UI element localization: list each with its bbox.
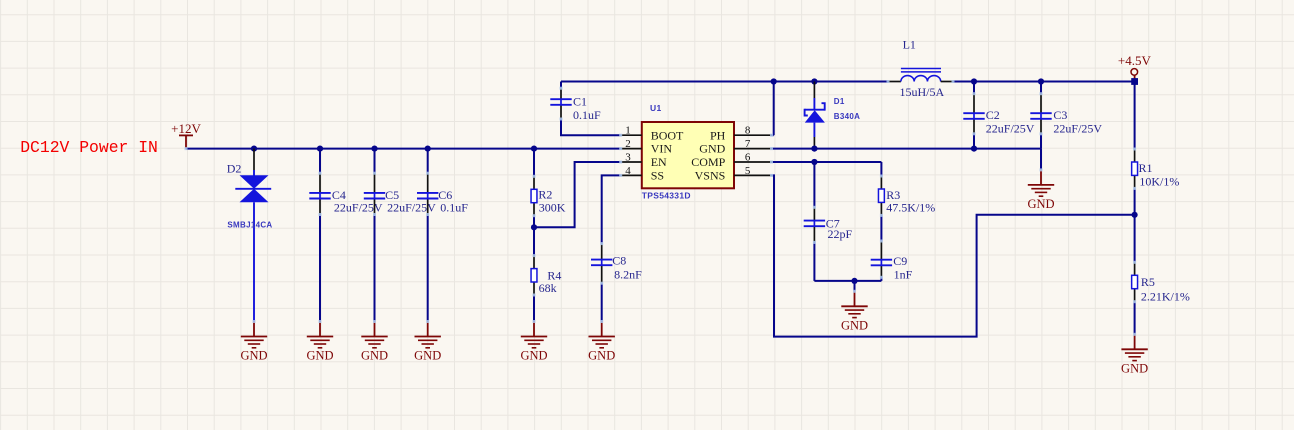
svg-text:GND: GND (841, 319, 868, 333)
svg-text:VIN: VIN (651, 142, 673, 156)
svg-text:TPS54331D: TPS54331D (642, 190, 691, 200)
svg-text:+12V: +12V (171, 121, 201, 136)
svg-text:22uF/25V: 22uF/25V (986, 122, 1035, 136)
svg-text:D2: D2 (227, 161, 242, 175)
svg-text:R5: R5 (1141, 275, 1155, 289)
svg-text:10K/1%: 10K/1% (1139, 175, 1179, 189)
svg-text:7: 7 (745, 138, 751, 150)
svg-text:C8: C8 (612, 254, 626, 268)
svg-text:5: 5 (745, 165, 751, 177)
svg-text:0.1uF: 0.1uF (573, 108, 601, 122)
svg-text:47.5K/1%: 47.5K/1% (886, 201, 935, 215)
svg-text:22uF/25V: 22uF/25V (1053, 122, 1102, 136)
svg-text:GND: GND (699, 142, 725, 156)
svg-text:EN: EN (651, 155, 667, 169)
svg-text:L1: L1 (903, 38, 916, 52)
svg-text:4: 4 (625, 165, 631, 177)
svg-text:GND: GND (414, 349, 441, 363)
svg-text:22uF/25V: 22uF/25V (334, 201, 383, 215)
svg-text:GND: GND (1027, 197, 1054, 211)
svg-text:3: 3 (625, 151, 631, 163)
svg-text:C2: C2 (986, 108, 1000, 122)
svg-text:+4.5V: +4.5V (1118, 53, 1152, 68)
svg-text:1nF: 1nF (894, 268, 913, 282)
svg-text:C9: C9 (893, 254, 907, 268)
svg-text:D1: D1 (834, 97, 845, 106)
svg-text:C1: C1 (573, 94, 587, 108)
svg-text:0.1uF: 0.1uF (440, 201, 468, 215)
svg-text:GND: GND (361, 349, 388, 363)
svg-text:GND: GND (588, 349, 615, 363)
svg-text:8: 8 (745, 125, 751, 137)
svg-text:22uF/25V: 22uF/25V (387, 201, 436, 215)
svg-text:B340A: B340A (834, 112, 860, 121)
svg-text:15uH/5A: 15uH/5A (900, 85, 945, 99)
svg-text:6: 6 (745, 151, 751, 163)
svg-text:22pF: 22pF (828, 227, 853, 241)
svg-text:1: 1 (625, 125, 631, 137)
svg-text:2: 2 (625, 138, 631, 150)
svg-text:GND: GND (520, 349, 547, 363)
svg-text:GND: GND (240, 349, 267, 363)
svg-text:GND: GND (1121, 362, 1148, 376)
svg-text:R1: R1 (1139, 161, 1153, 175)
svg-text:8.2nF: 8.2nF (614, 267, 642, 281)
svg-text:SMBJ14CA: SMBJ14CA (227, 221, 272, 230)
svg-text:PH: PH (710, 128, 726, 142)
svg-text:VSNS: VSNS (695, 169, 726, 183)
svg-text:C3: C3 (1053, 108, 1067, 122)
svg-text:U1: U1 (650, 103, 661, 113)
svg-text:SS: SS (651, 169, 664, 183)
svg-text:BOOT: BOOT (651, 128, 684, 142)
svg-text:R2: R2 (538, 187, 552, 201)
svg-text:68k: 68k (539, 281, 557, 295)
svg-text:GND: GND (306, 349, 333, 363)
svg-text:300K: 300K (539, 201, 566, 215)
svg-text:DC12V Power IN: DC12V Power IN (20, 138, 158, 157)
svg-text:2.21K/1%: 2.21K/1% (1141, 290, 1190, 304)
svg-text:COMP: COMP (691, 155, 725, 169)
